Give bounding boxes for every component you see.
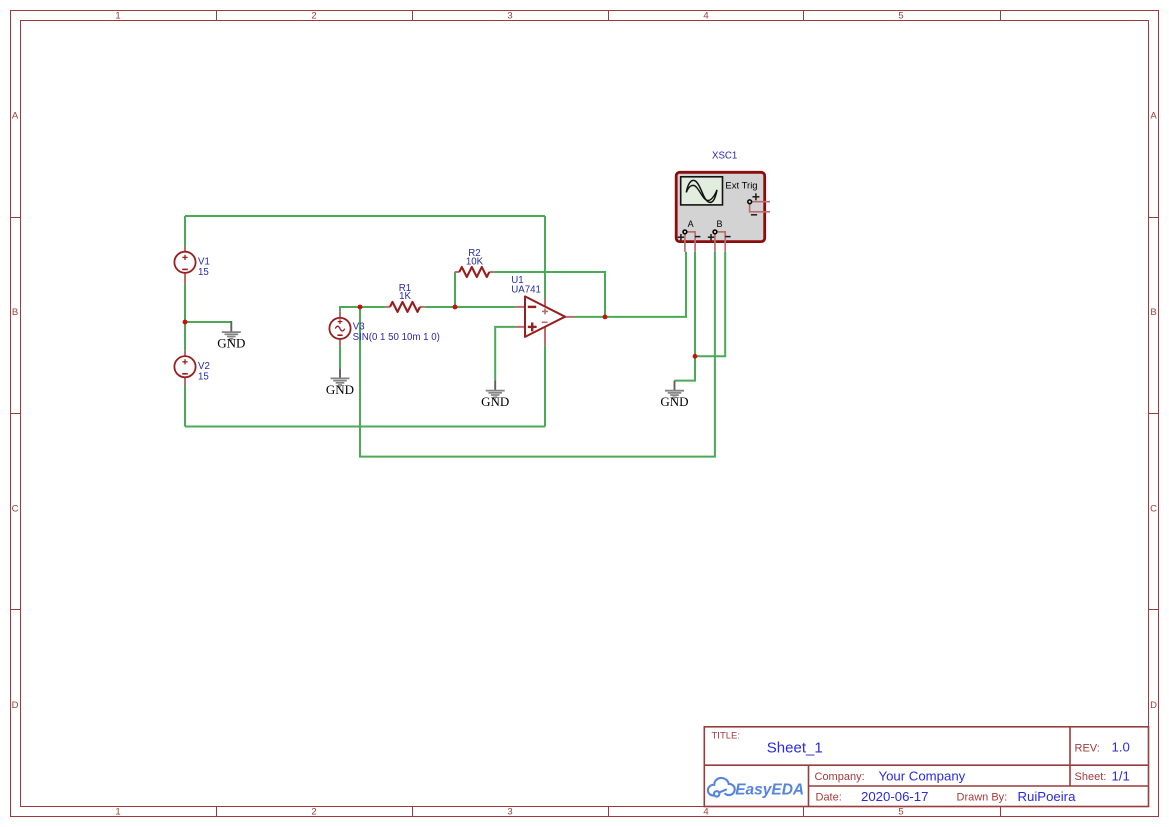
svg-text:C: C [12,504,19,515]
svg-text:4: 4 [703,807,708,818]
svg-text:2020-06-17: 2020-06-17 [861,789,928,804]
svg-text:5: 5 [898,807,903,818]
svg-text:A: A [1150,111,1157,122]
svg-text:15: 15 [198,267,209,278]
svg-text:V3: V3 [353,321,365,332]
node junction [183,320,188,325]
wire [675,356,696,380]
svg-text:B: B [716,219,722,229]
wire [185,215,545,217]
svg-text:15: 15 [198,372,209,383]
node junction [693,354,698,359]
svg-text:D: D [1150,700,1157,711]
EasyEDA logo [708,778,804,799]
label R2 value [466,248,484,267]
svg-text:Ext Trig: Ext Trig [725,181,757,192]
wire [184,216,186,247]
ground [217,321,245,351]
svg-text:C: C [1150,504,1157,515]
svg-text:1: 1 [115,11,120,22]
svg-text:1K: 1K [399,291,411,302]
svg-text:Your Company: Your Company [879,768,966,783]
wire [544,345,546,426]
ground [481,381,509,410]
svg-text:3: 3 [507,807,512,818]
label V2 value [198,361,210,382]
svg-text:1: 1 [115,807,120,818]
resistor R1 [385,302,424,312]
label V3 value [353,321,440,343]
svg-text:3: 3 [507,11,512,22]
svg-text:Sheet:: Sheet: [1075,771,1107,783]
voltage source V3 (sine) [329,311,350,346]
node junction [358,305,363,310]
wire [360,252,715,457]
label R1 value [399,283,412,302]
svg-text:RuiPoeira: RuiPoeira [1018,789,1077,804]
svg-text:GND: GND [660,394,688,409]
svg-text:5: 5 [898,11,903,22]
TITLEBLOCK [704,727,1148,807]
voltage source V2 [174,351,195,386]
wire [184,322,186,351]
svg-text:A: A [688,219,694,229]
wire [694,252,696,356]
svg-text:4: 4 [703,11,708,22]
svg-text:UA741: UA741 [511,284,541,295]
svg-text:B: B [12,307,18,318]
svg-text:1.0: 1.0 [1112,740,1130,755]
label U1 value [511,275,541,295]
wire [339,346,341,369]
ground [326,368,354,397]
ground [660,381,688,410]
svg-text:2: 2 [311,807,316,818]
svg-text:SIN(0 1 50 10m 1 0): SIN(0 1 50 10m 1 0) [353,332,440,343]
svg-text:Company:: Company: [815,771,865,783]
node junction [453,305,458,310]
svg-text:Date:: Date: [816,792,842,804]
svg-text:2: 2 [311,11,316,22]
svg-text:EasyEDA: EasyEDA [735,782,804,799]
pin Ext Trig [750,202,770,212]
voltage source V1 [174,246,195,284]
wire [695,252,725,356]
resistor R2 [455,267,494,277]
op-amp U1 [515,296,574,345]
wire [185,426,545,428]
svg-text:Drawn By:: Drawn By: [957,792,1008,804]
svg-text:Sheet_1: Sheet_1 [767,740,823,757]
wire [340,307,385,311]
node junction [603,315,608,320]
svg-text:XSC1: XSC1 [712,151,737,162]
svg-text:1/1: 1/1 [1112,768,1130,783]
wire [454,272,456,307]
svg-text:GND: GND [481,394,509,409]
wire [494,272,605,317]
wire [425,306,516,308]
wire [495,327,515,381]
wire [544,216,546,298]
oscilloscope XSC1 [676,172,770,252]
wire [185,321,231,323]
svg-text:GND: GND [217,336,245,351]
wire [184,386,186,427]
svg-text:D: D [12,700,19,711]
label V1 value [198,257,210,278]
svg-text:REV:: REV: [1075,743,1100,755]
svg-text:10K: 10K [466,256,484,267]
svg-text:V1: V1 [198,257,210,268]
svg-text:V2: V2 [198,361,210,372]
svg-text:A: A [12,111,19,122]
wire [574,252,686,317]
svg-text:TITLE:: TITLE: [712,731,741,742]
CIRCUIT [174,151,770,457]
svg-text:GND: GND [326,382,354,397]
svg-text:B: B [1150,307,1156,318]
wire [184,284,186,322]
